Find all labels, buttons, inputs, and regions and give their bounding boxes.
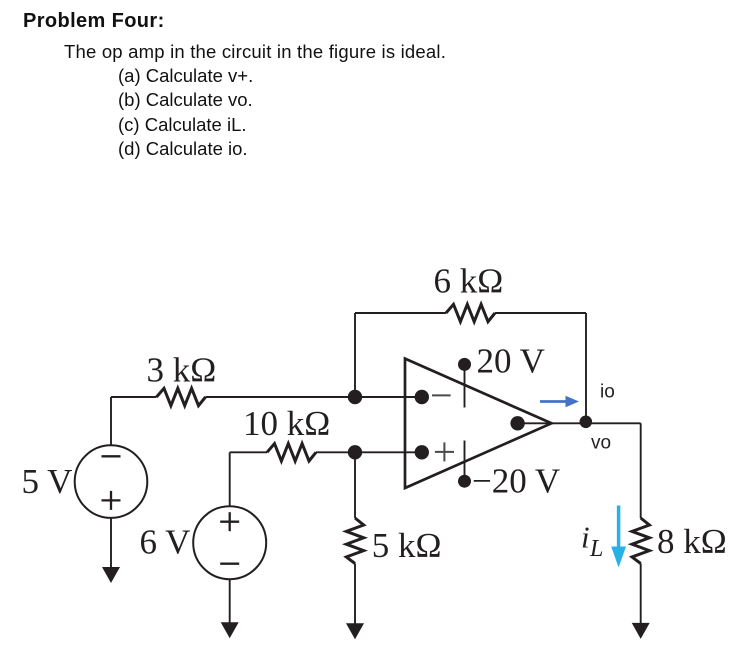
wire: 10k to op-amp plus input (316, 451, 422, 453)
item (b) (118, 91, 253, 109)
item (c) (118, 116, 247, 134)
io current arrow (blue) (540, 396, 579, 408)
minus sign inside 6V source (220, 563, 239, 565)
wire: inverting input row (5V source to op-amp) (111, 396, 157, 398)
svg-text:10 kΩ: 10 kΩ (243, 404, 330, 443)
op-amp power pin bar bottom (464, 441, 466, 482)
op-amp inverting input dot (415, 390, 429, 404)
op-amp minus sign (432, 394, 451, 396)
resistor R1 3k zigzag (157, 388, 206, 405)
svg-text:i: i (581, 520, 590, 555)
output node dot (580, 416, 593, 429)
item (a) (118, 67, 253, 85)
wire: 5V source to ground arrow (110, 518, 112, 568)
svg-text:6 kΩ: 6 kΩ (434, 262, 504, 301)
wire: 5k branch from node down (354, 452, 356, 518)
op-amp plus sign (435, 451, 454, 453)
wire: 6V branch vertical (229, 452, 231, 506)
svg-text:5 kΩ: 5 kΩ (372, 526, 442, 565)
source V2 6V circle (193, 506, 266, 579)
minus sign inside 5V source (102, 455, 121, 457)
svg-text:−20 V: −20 V (472, 461, 560, 500)
op-amp internal output dot (510, 416, 524, 430)
svg-text:20 V: 20 V (477, 342, 545, 381)
problem statement line (64, 43, 446, 61)
svg-text:8 kΩ: 8 kΩ (657, 522, 727, 561)
op-amp power pin bar top (464, 364, 466, 407)
wire: output corner down to 8k (640, 423, 642, 518)
ground arrow under 8k resistor (632, 623, 650, 639)
op-amp non-inverting input dot (415, 445, 429, 459)
resistor R3 5k zigzag (346, 518, 363, 564)
svg-text:3 kΩ: 3 kΩ (147, 351, 217, 390)
op-amp -supply pin dot (458, 475, 471, 488)
op-amp +supply pin dot (458, 358, 471, 371)
svg-text:L: L (589, 536, 603, 562)
wire: internal output stub from dot to vertex (518, 422, 552, 424)
wire: feedback top right segment (495, 312, 586, 314)
resistor R-feedback 6k zigzag (446, 304, 495, 321)
svg-text:vo: vo (591, 433, 611, 454)
op-amp U1 triangle (405, 359, 552, 488)
wire: feedback loop left vertical (354, 313, 356, 397)
wire: op-amp output (552, 422, 641, 424)
node dot: plus-row junction (348, 445, 362, 459)
wire: non-inverting input row left segment (230, 451, 267, 453)
plus sign inside 5V source (102, 499, 121, 501)
wire: 5k to ground arrow (354, 564, 356, 625)
resistor RL 8k zigzag (632, 518, 649, 564)
plus sign inside 6V source (220, 521, 239, 523)
node dot: minus-row junction (348, 390, 362, 404)
wire: left branch vertical from 3k row to 5V source (110, 397, 112, 445)
ground arrow under 5V source (102, 567, 120, 583)
title: Problem Four: (23, 11, 165, 31)
svg-text:io: io (600, 382, 615, 403)
wire: feedback top left segment (355, 312, 446, 314)
wire: 6V source to ground arrow (229, 579, 231, 623)
item (d) (118, 140, 248, 158)
svg-text:6 V: 6 V (140, 523, 191, 562)
ground arrow under 5k resistor (346, 623, 364, 639)
resistor R2 10k zigzag (267, 444, 316, 461)
wire: feedback right vertical down to output node (585, 313, 587, 423)
ground arrow under 6V source (221, 622, 239, 638)
iL current arrow (cyan) (611, 506, 626, 568)
svg-text:5 V: 5 V (22, 462, 73, 501)
source V1 5V circle (75, 445, 148, 518)
wire: 3k to op-amp minus input (206, 396, 422, 398)
wire: 8k to ground arrow (640, 564, 642, 625)
